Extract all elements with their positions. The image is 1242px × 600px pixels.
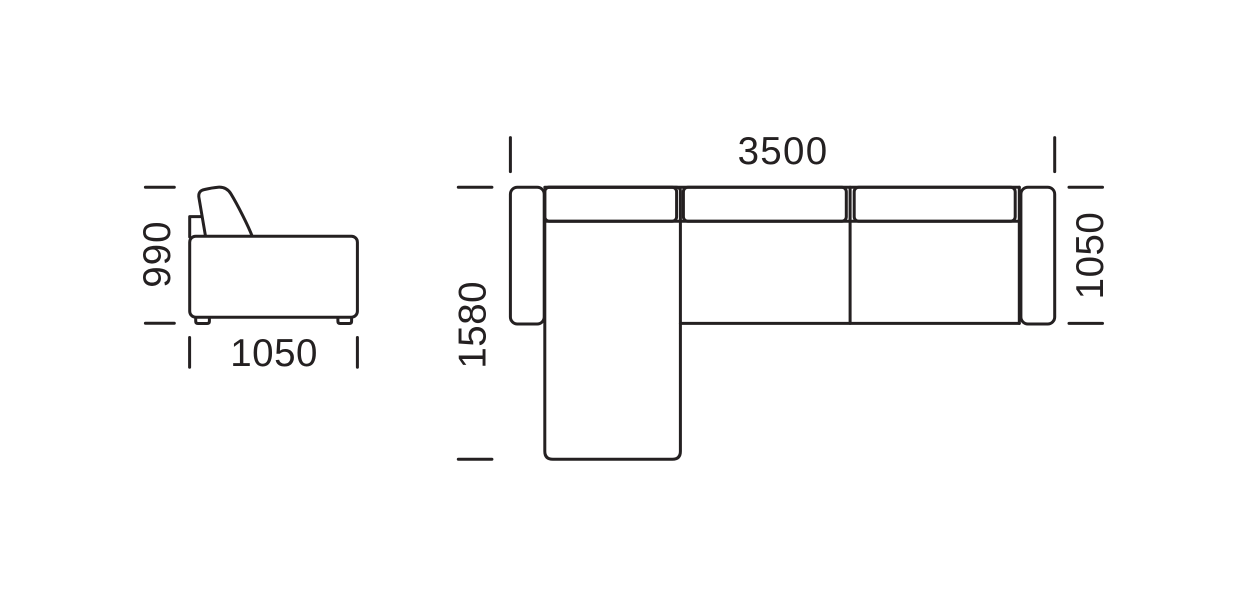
plan view: chaise section outline xyxy=(545,187,681,459)
plan view: left armrest xyxy=(510,187,544,324)
svg-text:1050: 1050 xyxy=(1069,212,1112,300)
plan view: dimension tick 1050 top-right xyxy=(1069,186,1103,189)
plan view: back cushion 3 xyxy=(854,187,1015,221)
plan view: seat front edge xyxy=(680,322,1019,325)
plan view: back cushion 1 xyxy=(545,187,677,221)
side view: sofa body xyxy=(190,236,358,317)
plan view: dimension tick 1580 top xyxy=(458,186,492,189)
side view: left foot xyxy=(196,318,210,324)
svg-text:3500: 3500 xyxy=(738,130,829,173)
plan view: seat right edge xyxy=(1018,187,1021,323)
side view: backrest cushion xyxy=(199,187,253,237)
svg-text:1050: 1050 xyxy=(230,332,318,375)
side view: right foot xyxy=(338,318,352,324)
side view: dimension tick 990 top xyxy=(145,186,174,189)
side view: dimension tick 1050 right xyxy=(356,338,359,368)
plan view: sofa top edge xyxy=(545,186,1020,189)
plan view: dimension tick 3500 left xyxy=(509,138,512,172)
plan view: back cushion 2 xyxy=(683,187,846,221)
svg-text:1580: 1580 xyxy=(452,281,495,369)
plan view: right armrest xyxy=(1021,187,1055,324)
plan view: dimension tick 1050 bottom-right xyxy=(1069,322,1103,325)
side view: back frame xyxy=(190,217,204,237)
side view: dimension tick 1050 left xyxy=(188,338,191,368)
plan view: dimension tick 1580 bottom xyxy=(458,458,492,461)
side view: dimension tick 990 bottom xyxy=(145,322,174,325)
svg-text:990: 990 xyxy=(136,220,179,287)
plan view: back cushion seam line xyxy=(545,220,1020,223)
plan view: seat divider xyxy=(849,187,852,323)
plan view: dimension tick 3500 right xyxy=(1053,138,1056,172)
